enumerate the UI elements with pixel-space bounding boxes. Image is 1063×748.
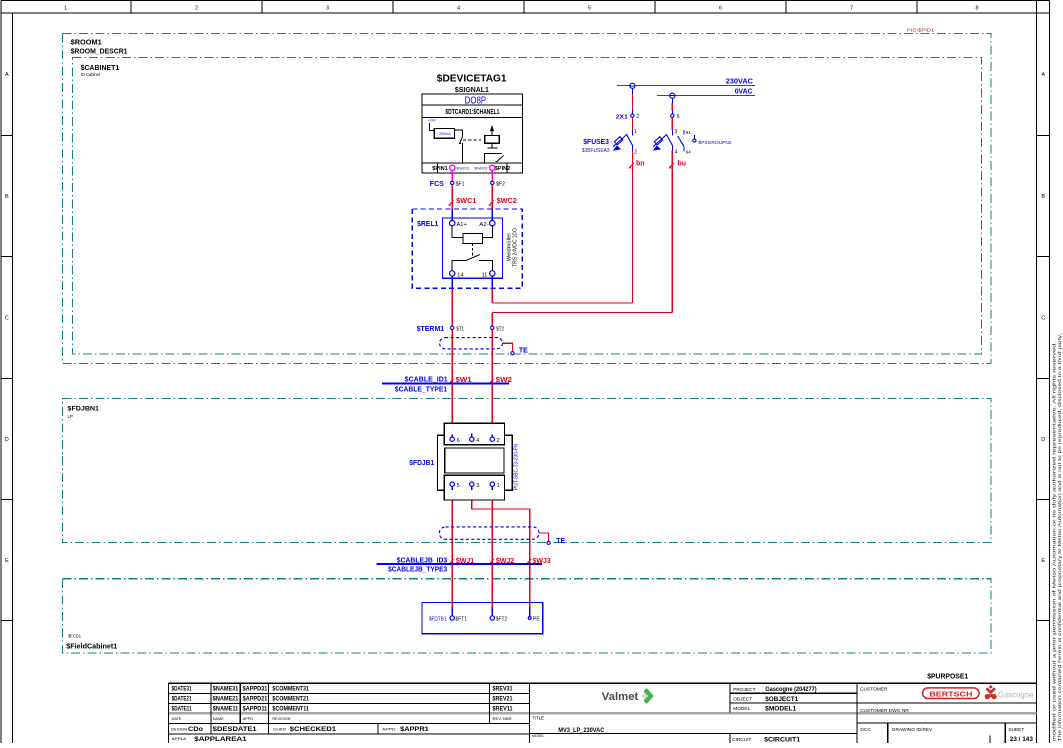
svg-text:8: 8 bbox=[975, 6, 978, 12]
svg-text:2: 2 bbox=[634, 149, 637, 155]
svg-text:APPD: APPD bbox=[243, 717, 254, 721]
svg-text:A2-: A2- bbox=[479, 222, 489, 228]
svg-text:$NAME31: $NAME31 bbox=[213, 685, 239, 692]
svg-text:B: B bbox=[5, 194, 9, 200]
svg-text:$DATE11: $DATE11 bbox=[172, 705, 192, 712]
svg-text:91: 91 bbox=[686, 130, 692, 135]
svg-text:$CABLEJB_TYPE3: $CABLEJB_TYPE3 bbox=[388, 567, 447, 574]
svg-text:OBJECT: OBJECT bbox=[733, 697, 752, 703]
svg-text:DCC: DCC bbox=[860, 727, 871, 733]
svg-text:MODEL: MODEL bbox=[733, 706, 750, 712]
svg-text:$F1: $F1 bbox=[456, 181, 465, 187]
svg-text:$ROOM_DESCR1: $ROOM_DESCR1 bbox=[71, 49, 128, 56]
svg-text:DATE: DATE bbox=[172, 717, 182, 721]
svg-text:$FT2: $FT2 bbox=[496, 616, 508, 622]
svg-text:$PURPOSE1: $PURPOSE1 bbox=[927, 672, 968, 681]
svg-text:2: 2 bbox=[195, 6, 198, 12]
svg-text:$FDJB1: $FDJB1 bbox=[409, 460, 434, 467]
svg-text:$WJ3: $WJ3 bbox=[533, 558, 551, 565]
svg-text:$ROOM1: $ROOM1 bbox=[71, 40, 102, 47]
svg-text:$CABLEJB_ID3: $CABLEJB_ID3 bbox=[397, 557, 447, 564]
svg-text:$T1: $T1 bbox=[456, 326, 464, 332]
svg-text:MV3_LP_230VAC: MV3_LP_230VAC bbox=[558, 727, 604, 734]
svg-text:$CABINET1: $CABINET1 bbox=[81, 65, 120, 72]
svg-text:CDo: CDo bbox=[188, 726, 203, 733]
svg-text:CUSTOMER DWG NR: CUSTOMER DWG NR bbox=[860, 708, 909, 714]
svg-text:$PwrDO2: $PwrDO2 bbox=[475, 167, 488, 171]
svg-text:$COMMENT11: $COMMENT11 bbox=[272, 705, 309, 712]
svg-text:REVISION: REVISION bbox=[272, 717, 290, 721]
svg-text:$WJ2: $WJ2 bbox=[496, 558, 514, 565]
svg-text:1: 1 bbox=[497, 483, 500, 489]
svg-text:4: 4 bbox=[457, 6, 460, 12]
svg-text:+24V: +24V bbox=[428, 118, 437, 122]
svg-text:$APPR1: $APPR1 bbox=[400, 726, 429, 733]
svg-text:$DEVICETAG1: $DEVICETAG1 bbox=[437, 73, 507, 84]
svg-text:modified or used without a pri: modified or used without a prior permiss… bbox=[1051, 342, 1056, 742]
svg-text:4: 4 bbox=[476, 438, 479, 444]
svg-text:$PIN1: $PIN1 bbox=[432, 166, 447, 172]
svg-text:3: 3 bbox=[675, 129, 678, 135]
svg-text:E: E bbox=[5, 558, 9, 564]
svg-text:E: E bbox=[1041, 558, 1045, 564]
svg-text:DO8P: DO8P bbox=[465, 95, 487, 106]
svg-text:$FieldCabinet1: $FieldCabinet1 bbox=[66, 643, 117, 650]
svg-text:$W2: $W2 bbox=[496, 377, 512, 384]
svg-text:2: 2 bbox=[497, 438, 500, 444]
svg-text:2: 2 bbox=[636, 114, 639, 120]
svg-text:$FUSE3: $FUSE3 bbox=[583, 139, 609, 146]
svg-text:$NAME21: $NAME21 bbox=[213, 695, 239, 702]
svg-text:$COMMENT21: $COMMENT21 bbox=[272, 695, 309, 702]
svg-text:$FDTB1: $FDTB1 bbox=[429, 616, 447, 622]
svg-text:23 / 143: 23 / 143 bbox=[1010, 736, 1034, 743]
svg-text:TE: TE bbox=[556, 538, 565, 545]
svg-text:D: D bbox=[5, 437, 9, 443]
svg-text:$FT1: $FT1 bbox=[456, 616, 468, 622]
svg-text:$WC2: $WC2 bbox=[497, 198, 517, 205]
svg-text:$PwrDO1: $PwrDO1 bbox=[457, 167, 470, 171]
svg-text:$T2: $T2 bbox=[496, 326, 504, 332]
svg-text:C: C bbox=[5, 316, 9, 322]
svg-text:$3BFUSEA3: $3BFUSEA3 bbox=[582, 148, 610, 154]
svg-text:TE: TE bbox=[519, 348, 528, 355]
svg-text:$PIN2: $PIN2 bbox=[495, 166, 510, 172]
svg-text:$FCD1: $FCD1 bbox=[68, 634, 82, 639]
svg-text:SHEET: SHEET bbox=[1008, 727, 1024, 733]
svg-text:6: 6 bbox=[719, 6, 722, 12]
svg-text:$DATE21: $DATE21 bbox=[172, 695, 192, 702]
svg-text:Gascogne: Gascogne bbox=[998, 689, 1034, 699]
svg-text:7: 7 bbox=[850, 6, 853, 12]
svg-text:$REV31: $REV31 bbox=[493, 685, 513, 692]
svg-text:$NAME11: $NAME11 bbox=[213, 705, 239, 712]
svg-text:REV. NBR.: REV. NBR. bbox=[493, 717, 513, 721]
svg-text:PROJECT: PROJECT bbox=[733, 687, 755, 693]
svg-text:6: 6 bbox=[677, 114, 680, 120]
svg-text:2X1: 2X1 bbox=[616, 114, 628, 120]
svg-text:$DATE31: $DATE31 bbox=[172, 685, 192, 692]
svg-text:$APPD11: $APPD11 bbox=[243, 705, 268, 712]
svg-text:CIRCUIT: CIRCUIT bbox=[732, 737, 752, 743]
svg-text:FCS: FCS bbox=[430, 181, 444, 188]
svg-text:APPD: APPD bbox=[382, 727, 396, 731]
svg-text:5: 5 bbox=[457, 483, 460, 489]
svg-text:CUSTOMER: CUSTOMER bbox=[860, 687, 888, 693]
svg-text:$CHECKED1: $CHECKED1 bbox=[290, 726, 337, 733]
svg-text:$PSGROUPN2: $PSGROUPN2 bbox=[699, 140, 732, 146]
svg-text:14: 14 bbox=[457, 273, 463, 279]
svg-text:BERTSCH: BERTSCH bbox=[929, 691, 972, 698]
svg-text:230VAC: 230VAC bbox=[726, 79, 753, 86]
svg-text:$CABLE_TYPE1: $CABLE_TYPE1 bbox=[395, 386, 447, 393]
svg-text:$WC1: $WC1 bbox=[456, 198, 476, 205]
svg-text:$CABLE_ID1: $CABLE_ID1 bbox=[405, 376, 448, 383]
svg-text:$REV11: $REV11 bbox=[493, 705, 513, 712]
svg-text:$REV21: $REV21 bbox=[493, 695, 513, 702]
svg-text:11: 11 bbox=[482, 273, 488, 279]
svg-text:Gascogne (204277): Gascogne (204277) bbox=[765, 686, 817, 693]
svg-text:$WJ1: $WJ1 bbox=[456, 558, 474, 565]
svg-text:TITLE: TITLE bbox=[532, 716, 544, 721]
svg-text:NAME: NAME bbox=[213, 717, 224, 721]
svg-text:CHKD: CHKD bbox=[273, 727, 287, 731]
svg-text:Valmet: Valmet bbox=[602, 691, 639, 703]
svg-text:4: 4 bbox=[675, 149, 678, 155]
svg-text:6: 6 bbox=[457, 438, 460, 444]
svg-text:LP: LP bbox=[68, 414, 73, 419]
svg-text:DRAWING ID/REV: DRAWING ID/REV bbox=[892, 727, 933, 733]
svg-text:$CIRCUIT1: $CIRCUIT1 bbox=[764, 736, 800, 743]
svg-text:bn: bn bbox=[636, 161, 645, 168]
svg-text:B: B bbox=[1041, 194, 1045, 200]
svg-text:The information contained here: The information contained herein is conf… bbox=[1057, 334, 1062, 742]
svg-text:$FDJBN1: $FDJBN1 bbox=[68, 406, 100, 413]
svg-text:0VAC: 0VAC bbox=[735, 89, 753, 96]
svg-text:$SIGNAL1: $SIGNAL1 bbox=[455, 85, 489, 94]
svg-text:DESIGN: DESIGN bbox=[171, 727, 188, 731]
svg-text:200mA: 200mA bbox=[439, 132, 451, 136]
svg-text:PE: PE bbox=[533, 616, 541, 622]
svg-text:$DTCARD1:$CHANEL1: $DTCARD1:$CHANEL1 bbox=[445, 107, 499, 116]
svg-text:$COMMENT31: $COMMENT31 bbox=[272, 685, 309, 692]
svg-text:A: A bbox=[1041, 72, 1045, 78]
svg-text:$DESDATE1: $DESDATE1 bbox=[213, 726, 257, 733]
svg-text:MODEL: MODEL bbox=[532, 734, 545, 738]
svg-text:$APPLAREA1: $APPLAREA1 bbox=[194, 736, 247, 743]
svg-text:$F2: $F2 bbox=[496, 181, 505, 187]
svg-text:$W1: $W1 bbox=[456, 377, 472, 384]
svg-text:$OBJECT1: $OBJECT1 bbox=[765, 696, 798, 703]
svg-text:C: C bbox=[1041, 316, 1045, 322]
svg-text:$MODEL1: $MODEL1 bbox=[765, 705, 796, 712]
svg-text:1: 1 bbox=[64, 6, 67, 12]
svg-text:APPLA: APPLA bbox=[172, 737, 187, 741]
svg-text:bu: bu bbox=[678, 161, 687, 168]
svg-text:A1+: A1+ bbox=[457, 222, 467, 228]
svg-text:94: 94 bbox=[686, 150, 692, 155]
svg-text:3: 3 bbox=[476, 483, 479, 489]
svg-text:PID:$PID1: PID:$PID1 bbox=[907, 27, 935, 33]
svg-text:$APPD31: $APPD31 bbox=[243, 685, 268, 692]
svg-text:3: 3 bbox=[326, 6, 329, 12]
svg-text:D: D bbox=[1041, 437, 1045, 443]
svg-text:$APPD21: $APPD21 bbox=[243, 695, 268, 702]
svg-text:IO Cabinet: IO Cabinet bbox=[81, 72, 101, 77]
svg-text:$TERM1: $TERM1 bbox=[417, 326, 445, 333]
svg-text:$REL1: $REL1 bbox=[417, 221, 438, 228]
svg-text:PUT-SBC-T3-230-FN: PUT-SBC-T3-230-FN bbox=[514, 444, 520, 490]
svg-text:A: A bbox=[5, 72, 9, 78]
svg-text:5: 5 bbox=[588, 6, 591, 12]
svg-text:TRS 24VDC 1CO: TRS 24VDC 1CO bbox=[513, 228, 519, 267]
svg-text:1: 1 bbox=[634, 129, 637, 135]
